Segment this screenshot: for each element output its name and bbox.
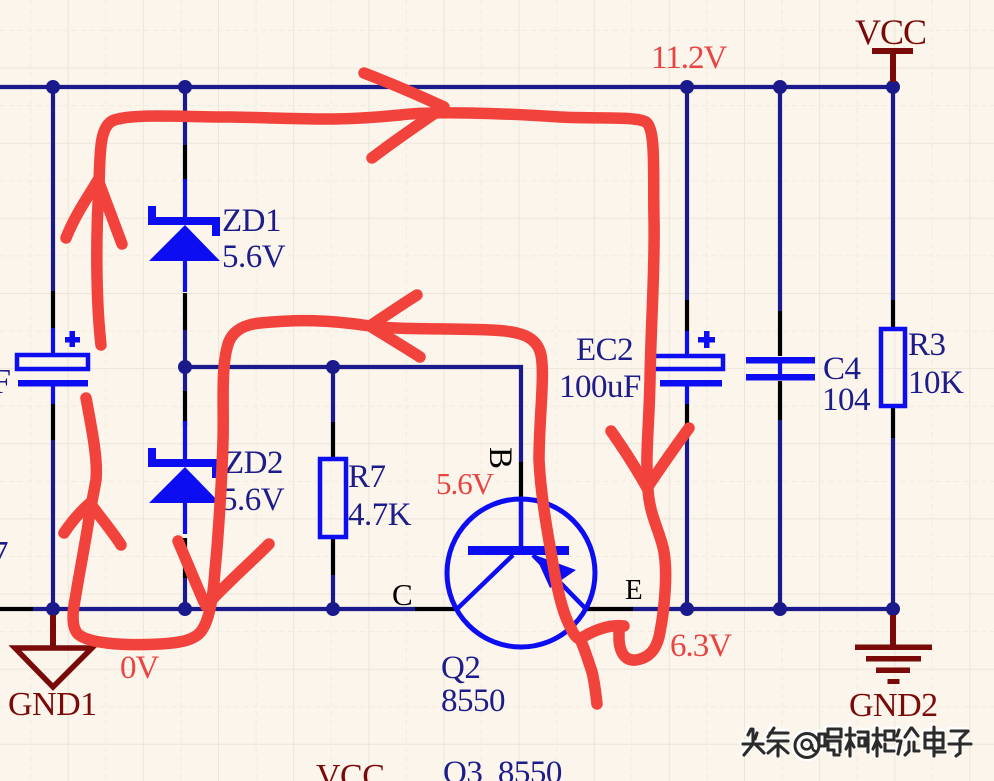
ground GND1 [15, 615, 92, 687]
svg-text:VCC: VCC [855, 12, 926, 52]
wire ZD1/ZD2 branch x=185 [183, 87, 187, 609]
svg-text:8550: 8550 [441, 683, 505, 719]
svg-text:5.6V: 5.6V [436, 466, 495, 501]
ground GND2 [855, 615, 932, 684]
svg-text:7: 7 [0, 534, 9, 573]
wire left branch x=53 [51, 87, 55, 609]
svg-text:104: 104 [822, 382, 870, 418]
svg-text:Q3 8550: Q3 8550 [443, 755, 562, 781]
svg-text:0V: 0V [120, 650, 160, 686]
resistor R3 [881, 329, 905, 406]
svg-text:C: C [392, 577, 413, 612]
red arrowhead up (left) [66, 180, 122, 244]
resistor R7 [320, 459, 346, 537]
svg-text:Q2: Q2 [441, 650, 480, 686]
capacitor C4 104 [746, 357, 815, 381]
svg-text:5.6V: 5.6V [221, 482, 285, 518]
pin Q2 emitter lead [585, 607, 633, 611]
wire R3 branch x=893 [891, 87, 895, 609]
svg-text:10K: 10K [908, 365, 964, 401]
wire base net y=367 [185, 367, 521, 462]
red current loop 1 (outer) [97, 113, 666, 660]
svg-text:ZD2: ZD2 [224, 445, 283, 481]
red arrowhead down (at 0V junction) [178, 541, 269, 606]
svg-text:R7: R7 [348, 459, 386, 495]
svg-text:R3: R3 [908, 327, 946, 363]
junction dots base net [178, 360, 340, 374]
red arrowhead at emitter [580, 626, 624, 704]
svg-text:ZD1: ZD1 [222, 203, 281, 239]
red arrowhead down (right of EC2) [611, 428, 689, 488]
svg-text:GND2: GND2 [849, 687, 938, 724]
zener diode ZD1 [148, 179, 220, 292]
svg-text:4.7K: 4.7K [348, 497, 412, 533]
wire top rail 11.2V/VCC [0, 85, 893, 89]
svg-text:EC2: EC2 [576, 332, 633, 368]
svg-text:VCC: VCC [316, 758, 384, 781]
svg-text:100uF: 100uF [559, 369, 641, 405]
capacitor EC2 100uF [652, 331, 723, 404]
svg-text:5.6V: 5.6V [222, 239, 286, 275]
svg-text:E: E [625, 574, 643, 606]
wire EC2 branch x=687 [685, 87, 689, 609]
transistor Q2 8550 (PNP) [447, 499, 595, 647]
junction dots bottom rail [46, 602, 900, 616]
svg-text:F: F [0, 362, 11, 401]
red arrowhead left (base wire) [370, 295, 420, 357]
red current loop 2 (inner) [73, 321, 579, 645]
red arrowhead up (mid-left) [64, 503, 121, 545]
red arrowhead right (top) [364, 73, 444, 158]
pin Q2 collector lead [415, 607, 458, 611]
wire bottom rail right segment [633, 607, 893, 611]
capacitor EC1 (partial, left edge) [17, 328, 88, 404]
wire bottom rail left segment [33, 607, 415, 611]
svg-text:11.2V: 11.2V [651, 40, 728, 76]
svg-text:6.3V: 6.3V [670, 628, 732, 664]
power symbol VCC [872, 48, 913, 82]
svg-text:GND1: GND1 [8, 686, 97, 723]
wire R7 branch x=333 [331, 367, 335, 609]
pin bottom-left black stub [0, 607, 33, 611]
junction dots top rail [46, 80, 900, 94]
watermark 头条 @喝枸杞论电子 [742, 726, 970, 755]
pin Q2 base lead [519, 462, 523, 499]
wire C4 branch x=780 [778, 87, 782, 609]
zener diode ZD2 [148, 421, 220, 534]
